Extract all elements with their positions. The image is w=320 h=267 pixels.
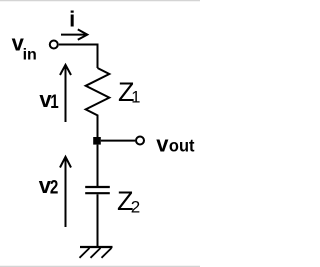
svg-text:out: out bbox=[169, 136, 195, 156]
svg-text:v: v bbox=[156, 131, 169, 156]
svg-text:2: 2 bbox=[50, 176, 58, 198]
svg-text:1: 1 bbox=[50, 90, 59, 112]
svg-text:1: 1 bbox=[131, 89, 140, 107]
svg-text:in: in bbox=[23, 46, 37, 63]
svg-text:i: i bbox=[69, 7, 75, 32]
svg-text:2: 2 bbox=[131, 197, 140, 216]
